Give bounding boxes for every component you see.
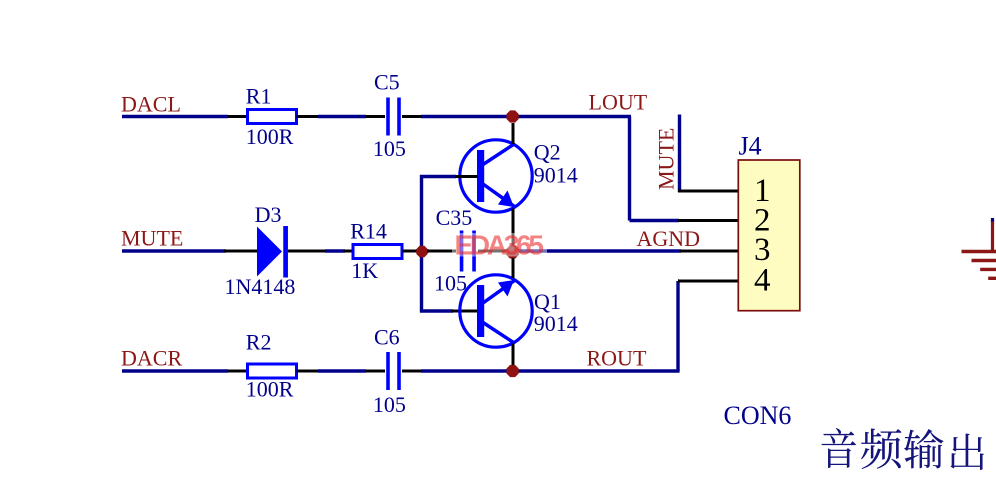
svg-text:100R: 100R [246, 376, 294, 401]
svg-text:105: 105 [373, 136, 406, 161]
svg-text:DACR: DACR [121, 346, 182, 371]
svg-text:ROUT: ROUT [587, 346, 647, 371]
svg-text:LOUT: LOUT [589, 89, 648, 114]
svg-text:4: 4 [754, 262, 771, 298]
svg-text:R1: R1 [246, 84, 272, 109]
svg-text:R14: R14 [350, 218, 387, 243]
svg-text:AGND: AGND [637, 226, 701, 251]
svg-text:9014: 9014 [534, 162, 578, 187]
svg-text:105: 105 [373, 392, 406, 417]
svg-text:1K: 1K [351, 258, 378, 283]
svg-text:100R: 100R [246, 124, 294, 149]
svg-text:C5: C5 [374, 69, 400, 94]
svg-text:9014: 9014 [534, 311, 578, 336]
svg-text:1N4148: 1N4148 [225, 274, 296, 299]
svg-text:EDA365: EDA365 [455, 230, 545, 261]
svg-text:CON6: CON6 [724, 401, 792, 430]
svg-text:Q2: Q2 [534, 140, 561, 165]
svg-text:MUTE: MUTE [654, 128, 679, 190]
svg-text:MUTE: MUTE [121, 225, 183, 250]
svg-text:J4: J4 [739, 132, 762, 161]
svg-text:C6: C6 [374, 324, 400, 349]
svg-text:R2: R2 [246, 330, 272, 355]
svg-text:DACL: DACL [121, 91, 181, 116]
svg-text:105: 105 [434, 271, 467, 296]
svg-text:C35: C35 [436, 205, 473, 230]
svg-text:D3: D3 [255, 202, 282, 227]
